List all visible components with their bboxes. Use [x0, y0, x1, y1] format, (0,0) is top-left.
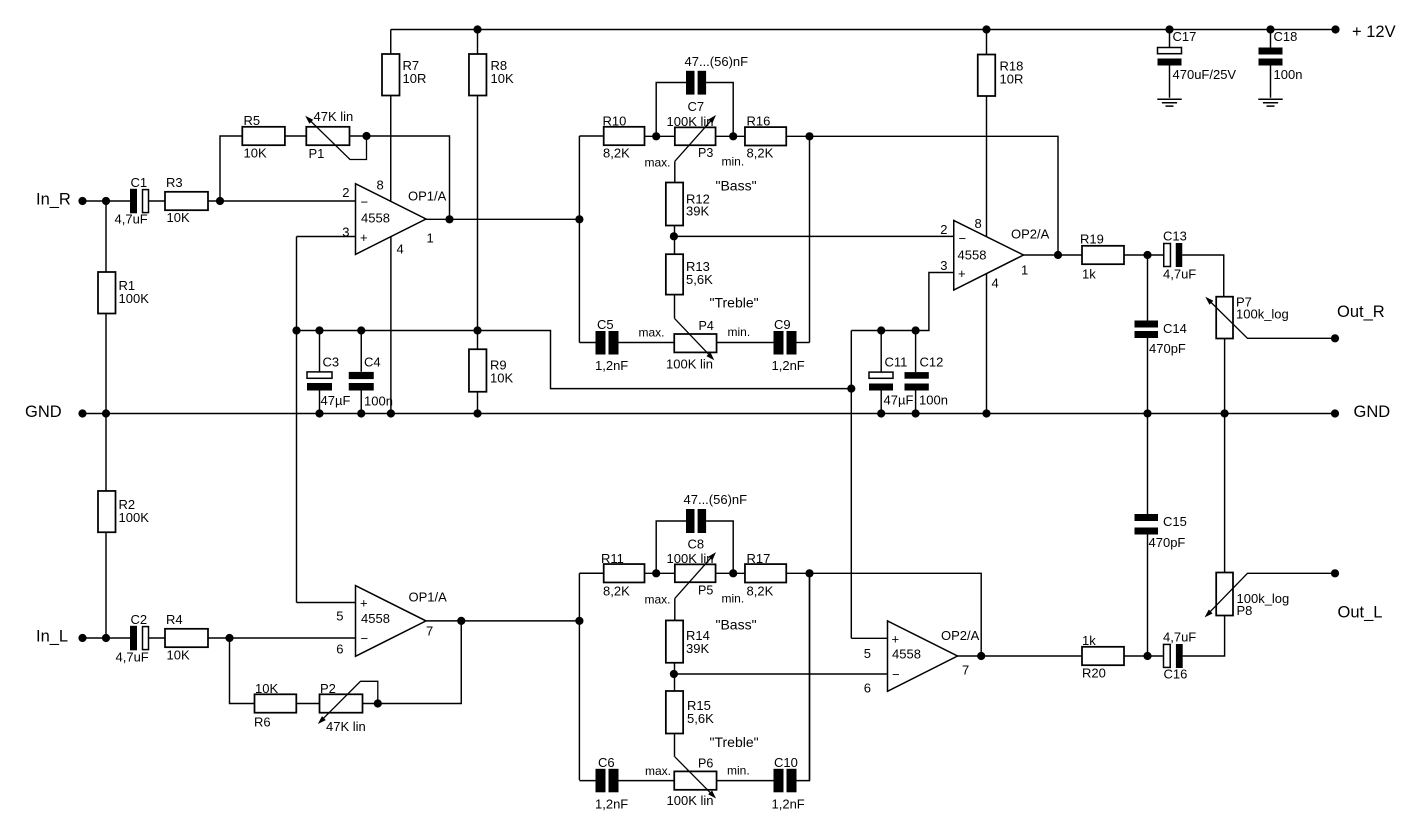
- node R14-R15 junction: [670, 670, 678, 678]
- label Treble lower: [710, 734, 759, 750]
- resistor R12: [666, 183, 683, 226]
- svg-text:5: 5: [336, 609, 343, 624]
- node Out_L terminal: [1331, 569, 1339, 577]
- svg-text:GND: GND: [25, 403, 62, 421]
- svg-text:P3: P3: [698, 146, 713, 160]
- node bias jog junction: [847, 385, 855, 393]
- wire bias vertical to OP2/B pin5: [850, 331, 852, 639]
- wire R11 left: [579, 572, 603, 574]
- node In_L terminal: [78, 634, 86, 642]
- wire C6 to P6: [619, 780, 675, 782]
- ground C17: [1157, 99, 1181, 106]
- wire bias rail: [297, 331, 852, 389]
- wire R17 right: [786, 572, 809, 574]
- wire R4 to OP1/B pin 6: [208, 637, 356, 639]
- svg-text:C16: C16: [1164, 667, 1188, 682]
- wire OP2/B output: [958, 655, 1083, 657]
- node GND left terminal: [78, 409, 86, 417]
- svg-text:470pF: 470pF: [1149, 535, 1186, 550]
- svg-text:4,7uF: 4,7uF: [1163, 267, 1196, 282]
- svg-text:R3: R3: [166, 175, 183, 190]
- svg-text:4,7uF: 4,7uF: [115, 212, 148, 227]
- label R11: [601, 551, 624, 566]
- node R17 right junction: [805, 569, 813, 577]
- wire R18 to OP2/A pin 8: [986, 96, 988, 237]
- label C6 value: [595, 797, 628, 812]
- svg-text:1,2nF: 1,2nF: [772, 358, 805, 373]
- svg-text:C12: C12: [920, 355, 944, 370]
- svg-text:−: −: [361, 631, 369, 646]
- svg-text:"Bass": "Bass": [716, 178, 757, 194]
- op-amp U1 OP1/A: [342, 178, 446, 257]
- wiper P3: [675, 115, 716, 161]
- svg-text:R17: R17: [747, 551, 771, 566]
- node In_L junction: [102, 634, 110, 642]
- label C16: [1164, 667, 1188, 682]
- potentiometer P4: [674, 334, 716, 352]
- svg-text:C17: C17: [1173, 29, 1197, 44]
- wire C10 branch vertical: [809, 573, 811, 780]
- capacitor C13: [1164, 243, 1183, 267]
- op-amp U4 OP2/B: [864, 621, 980, 696]
- capacitor C3: [307, 372, 332, 391]
- wiper P7: [1205, 297, 1335, 339]
- label P1: [309, 146, 325, 161]
- wire C15 bottom: [1147, 535, 1149, 657]
- label R16: [747, 114, 771, 129]
- svg-text:C5: C5: [597, 317, 614, 332]
- svg-text:1,2nF: 1,2nF: [772, 797, 805, 812]
- svg-text:OP2/A: OP2/A: [941, 628, 980, 643]
- wire OP2/A output: [1024, 254, 1083, 256]
- label C5: [597, 317, 614, 332]
- capacitor C9: [774, 331, 797, 355]
- label R12 value: [686, 192, 710, 219]
- svg-text:Out_L: Out_L: [1338, 603, 1383, 621]
- label C3 value: [321, 393, 351, 408]
- wire R2 top: [105, 414, 107, 492]
- svg-text:max.: max.: [639, 326, 665, 340]
- wire R3 junction to R5: [220, 136, 243, 201]
- label R17 value: [747, 584, 774, 599]
- label P5 max: [645, 593, 671, 607]
- capacitor C18: [1259, 48, 1283, 66]
- svg-text:10K: 10K: [167, 648, 190, 663]
- svg-text:1: 1: [427, 231, 434, 246]
- label R20: [1082, 666, 1106, 681]
- svg-text:100k_log: 100k_log: [1236, 307, 1289, 322]
- wire C5 left: [579, 342, 595, 344]
- node R18 top junction: [982, 25, 990, 33]
- label C8 value: [684, 492, 748, 507]
- label C10: [774, 755, 798, 770]
- svg-text:C18: C18: [1274, 29, 1298, 44]
- svg-text:7: 7: [962, 663, 969, 678]
- svg-text:C15: C15: [1163, 514, 1187, 529]
- wire OP1/B pin5 to bias: [297, 602, 356, 604]
- svg-text:min.: min.: [728, 325, 751, 339]
- svg-text:Out_R: Out_R: [1337, 303, 1385, 321]
- node P5 right junction: [729, 569, 737, 577]
- svg-text:R6: R6: [254, 715, 271, 730]
- wire C2 to R4: [149, 637, 166, 639]
- node C13 left junction: [1143, 251, 1151, 259]
- label C7: [688, 99, 705, 114]
- svg-text:R16: R16: [747, 114, 771, 129]
- svg-text:4: 4: [397, 242, 404, 257]
- capacitor C7: [686, 71, 706, 95]
- svg-text:8: 8: [377, 178, 384, 193]
- svg-text:470pF: 470pF: [1149, 341, 1186, 356]
- svg-text:47µF: 47µF: [884, 393, 914, 408]
- node R4 output junction: [225, 634, 233, 642]
- port GND right: [1354, 403, 1391, 421]
- label P7 value: [1236, 307, 1289, 322]
- svg-text:+: +: [360, 230, 368, 245]
- svg-text:100K: 100K: [119, 510, 150, 525]
- svg-text:1: 1: [1021, 263, 1028, 278]
- svg-text:C14: C14: [1163, 321, 1187, 336]
- svg-text:47K lin: 47K lin: [314, 109, 354, 124]
- label C8: [688, 537, 705, 552]
- wire R18 top: [986, 30, 988, 55]
- wire R2 bottom: [105, 532, 107, 638]
- svg-text:10K: 10K: [167, 210, 190, 225]
- label R20 value: [1082, 633, 1096, 648]
- resistor R17: [745, 564, 786, 582]
- wire OP1/A pin3 to bias: [297, 236, 356, 238]
- label P6 max: [645, 764, 671, 778]
- ground C18: [1258, 99, 1282, 106]
- label R4 value: [167, 648, 190, 663]
- wire P3 wiper to R12: [674, 161, 676, 182]
- label C15 value: [1149, 535, 1186, 550]
- svg-text:8,2K: 8,2K: [747, 146, 774, 161]
- svg-text:"Treble": "Treble": [710, 734, 759, 750]
- svg-text:10R: 10R: [403, 71, 427, 86]
- label C4 value: [364, 394, 393, 409]
- label P1 value: [314, 109, 354, 124]
- svg-text:5,6K: 5,6K: [686, 272, 713, 287]
- svg-text:+: +: [360, 596, 368, 611]
- wire branch vertical R11-C6: [578, 573, 580, 780]
- node OP1/B output branch junction: [575, 617, 583, 625]
- label R15 value: [687, 698, 714, 726]
- node GND right terminal: [1331, 409, 1339, 417]
- svg-text:R19: R19: [1080, 232, 1104, 247]
- svg-text:7: 7: [426, 624, 433, 639]
- svg-text:OP1/A: OP1/A: [408, 189, 447, 204]
- node GND C4: [357, 409, 365, 417]
- wire R6 to P2: [296, 703, 319, 705]
- svg-text:100K lin: 100K lin: [666, 357, 713, 372]
- wire bias to OP2/B pin5: [851, 637, 887, 639]
- svg-text:+: +: [892, 632, 900, 647]
- wire R13 to P4 wiper: [674, 295, 676, 319]
- wire R9 top: [477, 331, 479, 350]
- label R6: [254, 715, 271, 730]
- wire R9 bottom: [477, 392, 479, 414]
- label P6: [698, 757, 713, 771]
- svg-text:max.: max.: [645, 156, 671, 170]
- label C2: [131, 612, 148, 627]
- label Treble upper: [710, 295, 759, 311]
- svg-text:10K: 10K: [255, 681, 278, 696]
- resistor R3: [165, 192, 208, 210]
- svg-text:P8: P8: [1237, 603, 1253, 618]
- wire R11 to P5: [645, 572, 675, 574]
- wire P1 to feedback: [350, 136, 450, 219]
- wire P8 top to GND: [1224, 414, 1226, 574]
- svg-text:2: 2: [940, 222, 947, 237]
- capacitor C10: [774, 769, 797, 793]
- capacitor C6: [596, 769, 619, 793]
- node GND R1-R2: [102, 409, 110, 417]
- node C16 left junction: [1143, 652, 1151, 660]
- node GND R9: [473, 409, 481, 417]
- svg-text:−: −: [361, 195, 369, 210]
- capacitor C2: [130, 626, 149, 651]
- potentiometer P3: [675, 127, 716, 145]
- svg-text:P2: P2: [320, 681, 336, 696]
- svg-text:100K: 100K: [119, 291, 150, 306]
- label C4: [364, 355, 381, 370]
- svg-text:In_L: In_L: [36, 627, 68, 645]
- svg-text:max.: max.: [645, 764, 671, 778]
- label C18: [1274, 29, 1298, 44]
- svg-text:47...(56)nF: 47...(56)nF: [684, 492, 748, 507]
- label P4: [699, 319, 714, 333]
- node R3 output junction: [216, 197, 224, 205]
- wire C5 to P4: [619, 342, 675, 344]
- wire In_L: [83, 637, 131, 639]
- svg-text:1,2nF: 1,2nF: [595, 797, 628, 812]
- wire R10 left: [579, 135, 603, 137]
- label P2 value: [326, 719, 366, 734]
- svg-text:min.: min.: [722, 592, 745, 606]
- svg-text:C4: C4: [364, 355, 381, 370]
- wire R20 to C16: [1124, 655, 1164, 657]
- label P3 max: [645, 156, 671, 170]
- wire R15 to P6 wiper: [674, 734, 676, 757]
- node P1 wiper junction: [362, 132, 370, 140]
- wire R1 top: [105, 201, 107, 273]
- wire C3 bottom: [319, 391, 321, 414]
- svg-text:"Treble": "Treble": [710, 295, 759, 311]
- resistor R7: [382, 54, 400, 96]
- port Out_L: [1338, 603, 1383, 621]
- resistor R2: [98, 491, 116, 532]
- svg-text:47µF: 47µF: [321, 393, 351, 408]
- wire R8 top: [477, 30, 479, 55]
- wire C12 top: [915, 331, 917, 373]
- node GND P7-P8: [1221, 409, 1229, 417]
- label R17: [747, 551, 771, 566]
- wire C8 right: [706, 521, 733, 573]
- node P5 left junction: [652, 569, 660, 577]
- label R10 value: [603, 146, 630, 161]
- wiper P6: [675, 757, 716, 799]
- wire OP1/B output: [426, 620, 579, 622]
- label R3 value: [167, 210, 190, 225]
- wire In_R: [83, 200, 131, 202]
- label R5: [244, 113, 261, 128]
- label R7 value: [403, 58, 427, 86]
- capacitor C11: [869, 372, 893, 390]
- wiper P1: [305, 116, 366, 160]
- svg-text:OP1/A: OP1/A: [409, 590, 448, 605]
- svg-text:min.: min.: [722, 155, 745, 169]
- wire C18 bottom: [1270, 66, 1272, 98]
- wiper P5: [675, 552, 716, 598]
- label R10: [603, 114, 627, 129]
- label R19 value: [1082, 267, 1096, 282]
- potentiometer P1: [306, 127, 349, 145]
- node GND OP2/A pin4: [982, 409, 990, 417]
- wire C15 top: [1147, 414, 1149, 515]
- node bias pin3 junction: [292, 326, 300, 334]
- label R13 value: [686, 259, 713, 287]
- capacitor C12: [905, 372, 929, 390]
- node C12 top: [912, 326, 920, 334]
- svg-text:C3: C3: [323, 355, 340, 370]
- potentiometer P5: [675, 564, 716, 582]
- label R8 value: [491, 58, 514, 86]
- wire C3 top: [319, 331, 321, 372]
- port Out_R: [1337, 303, 1385, 321]
- wire P2 to feedback: [363, 621, 462, 704]
- node OP1/A output feedback junction: [445, 215, 453, 223]
- wire OP1/A output: [426, 218, 579, 220]
- svg-text:4558: 4558: [361, 611, 390, 626]
- node C3 top: [315, 326, 323, 334]
- label R18 value: [1000, 59, 1024, 87]
- svg-text:100K lin: 100K lin: [667, 114, 714, 129]
- label C1 value: [115, 212, 148, 227]
- resistor R11: [604, 564, 645, 582]
- wire C14 bottom: [1147, 338, 1149, 414]
- wire C9 right: [797, 342, 810, 344]
- node bias R9 junction: [473, 326, 481, 334]
- capacitor C8: [686, 509, 706, 533]
- svg-text:100n: 100n: [1274, 67, 1303, 82]
- node R8 top junction: [473, 25, 481, 33]
- label P8: [1237, 603, 1253, 618]
- svg-text:1k: 1k: [1082, 267, 1096, 282]
- node P3 right junction: [729, 132, 737, 140]
- svg-text:C8: C8: [688, 537, 705, 552]
- label P3 value: [667, 114, 714, 129]
- resistor R10: [604, 127, 645, 145]
- svg-text:R5: R5: [244, 113, 261, 128]
- capacitor C16: [1164, 644, 1183, 668]
- wire C4 top: [360, 331, 362, 372]
- node C11 top: [877, 326, 885, 334]
- label R19: [1080, 232, 1104, 247]
- wire R8 to bias node: [477, 96, 479, 331]
- wire R15 top: [674, 674, 676, 691]
- op-amp U3 OP1/B: [336, 586, 447, 657]
- label C6: [598, 755, 615, 770]
- node OP1/B output feedback junction: [457, 617, 465, 625]
- svg-text:8,2K: 8,2K: [603, 146, 630, 161]
- potentiometer P7: [1216, 297, 1233, 339]
- svg-text:C1: C1: [131, 175, 148, 190]
- capacitor C4: [349, 372, 374, 391]
- svg-text:1k: 1k: [1082, 633, 1096, 648]
- svg-text:10K: 10K: [491, 71, 514, 86]
- wire P5 wiper to R14: [674, 598, 676, 620]
- svg-text:2: 2: [342, 185, 349, 200]
- label P6 value: [667, 793, 714, 808]
- node R16 right junction: [805, 132, 813, 140]
- wire C10 right: [797, 573, 810, 780]
- svg-text:max.: max.: [645, 593, 671, 607]
- label C18 value: [1274, 67, 1303, 82]
- resistor R5: [242, 127, 285, 145]
- wire C7 left: [656, 83, 686, 137]
- wire R19 to C13: [1124, 254, 1164, 256]
- label Bass upper: [716, 178, 757, 194]
- resistor R18: [978, 55, 996, 97]
- capacitor C5: [596, 331, 619, 355]
- wire P5 right: [716, 572, 745, 574]
- resistor R9: [469, 349, 487, 392]
- svg-text:R11: R11: [601, 551, 624, 566]
- svg-text:3: 3: [342, 225, 349, 240]
- wire bass node to OP2/B pin 6: [674, 673, 888, 675]
- wire R1 bottom: [105, 313, 107, 414]
- svg-text:6: 6: [336, 642, 343, 657]
- label C1: [131, 175, 148, 190]
- wire R7 top: [390, 30, 392, 55]
- svg-text:+: +: [958, 266, 966, 281]
- label C3: [323, 355, 340, 370]
- wiper P4: [675, 318, 715, 360]
- svg-text:R10: R10: [603, 114, 627, 129]
- svg-text:GND: GND: [1354, 403, 1391, 421]
- svg-text:39K: 39K: [686, 204, 709, 219]
- wire C8 left: [656, 521, 686, 573]
- svg-text:100K lin: 100K lin: [667, 793, 714, 808]
- wire C17 bottom: [1169, 66, 1171, 98]
- svg-text:min.: min.: [727, 764, 750, 778]
- svg-text:C2: C2: [131, 612, 148, 627]
- wire C13 to P7: [1182, 255, 1224, 297]
- svg-text:3: 3: [940, 258, 947, 273]
- wire +12V rail: [391, 29, 1336, 31]
- label Bass lower: [716, 617, 757, 633]
- svg-text:47K lin: 47K lin: [326, 719, 366, 734]
- svg-text:In_R: In_R: [36, 190, 71, 208]
- svg-text:OP2/A: OP2/A: [1011, 226, 1050, 241]
- label P5 min: [722, 592, 745, 606]
- wire R4 junction to R6: [230, 638, 255, 704]
- label C7 value: [685, 54, 749, 69]
- capacitor C17: [1158, 48, 1182, 66]
- svg-text:10K: 10K: [244, 146, 267, 161]
- node GND C14-C15: [1143, 409, 1151, 417]
- wire R13 top: [674, 236, 676, 254]
- wire branch vertical R10-C5: [578, 136, 580, 343]
- label R11 value: [603, 584, 630, 599]
- port In_R: [36, 190, 71, 208]
- label P4 max: [639, 326, 665, 340]
- resistor R8: [469, 54, 487, 96]
- label C14: [1163, 321, 1187, 336]
- svg-text:P5: P5: [698, 584, 713, 598]
- wire P7 bottom to GND: [1224, 339, 1226, 414]
